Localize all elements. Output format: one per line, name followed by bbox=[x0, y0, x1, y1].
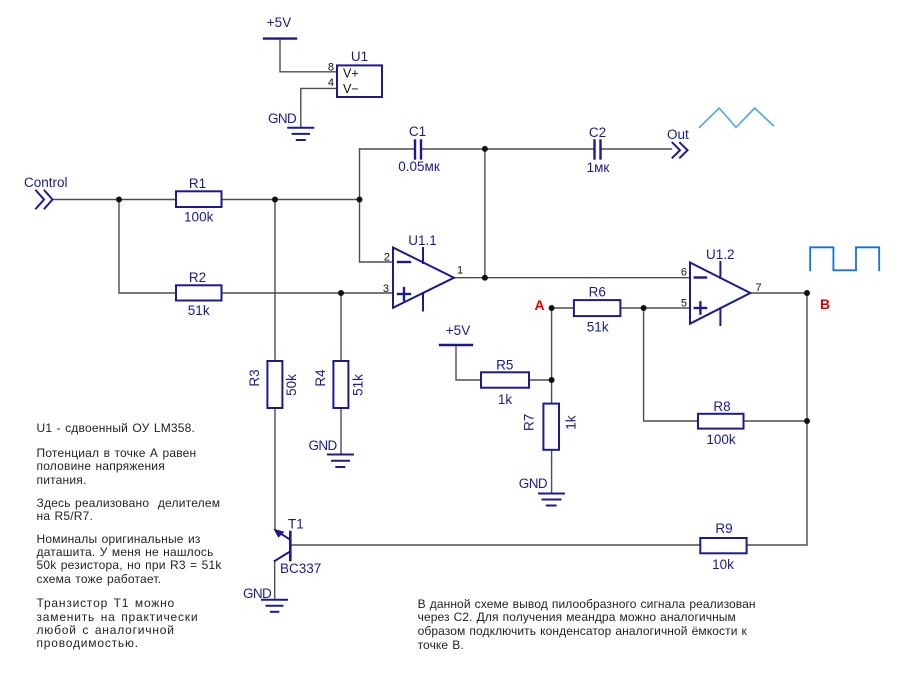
wire T1 emitter to ground bbox=[274, 561, 276, 598]
svg-text:BC337: BC337 bbox=[280, 561, 321, 576]
wire R3 to T1 collector bbox=[274, 408, 276, 530]
resistor R5 bbox=[481, 358, 529, 408]
wire U1.1 output to U1.2 pin6 bbox=[454, 277, 690, 279]
wire R1 to node at x359 bbox=[222, 199, 360, 201]
pin 5 label bbox=[681, 298, 687, 310]
label C1 bbox=[398, 124, 440, 174]
node A label bbox=[534, 297, 544, 313]
wire node275 down to R3 bbox=[274, 200, 276, 362]
label Out bbox=[667, 127, 689, 142]
svg-text:R4: R4 bbox=[313, 369, 328, 387]
svg-text:U1: U1 bbox=[351, 49, 368, 64]
port Control bbox=[36, 191, 53, 209]
wire R6 to pin5 bbox=[620, 307, 690, 309]
pin 6 label bbox=[681, 267, 687, 279]
note text block left bbox=[37, 422, 196, 435]
svg-text:1: 1 bbox=[457, 265, 463, 277]
pin 1 label bbox=[457, 265, 463, 277]
ground symbol top-left bbox=[288, 128, 313, 140]
svg-text:3: 3 bbox=[383, 283, 389, 295]
resistor R9 bbox=[700, 521, 746, 572]
resistor R4 bbox=[313, 361, 366, 408]
svg-text:5: 5 bbox=[681, 298, 687, 310]
capacitor C2 bbox=[595, 141, 601, 159]
wire R8 right to node B line bbox=[744, 420, 808, 422]
resistor R2 bbox=[176, 270, 222, 318]
junction node C1/C2 bbox=[482, 146, 488, 152]
svg-text:10k: 10k bbox=[712, 557, 734, 572]
svg-text:+5V: +5V bbox=[267, 15, 291, 30]
svg-text:Control: Control bbox=[24, 175, 68, 190]
resistor R3 bbox=[247, 361, 299, 408]
pin 2 label bbox=[384, 252, 390, 264]
svg-text:C1: C1 bbox=[409, 124, 426, 139]
note text block right bbox=[418, 598, 756, 653]
wire R5 to node bbox=[529, 379, 552, 381]
label Control bbox=[24, 175, 68, 190]
power +5V symbol mid bbox=[440, 323, 472, 345]
svg-text:2: 2 bbox=[384, 252, 390, 264]
junction node R1/R3 bbox=[272, 197, 278, 203]
ground label under T1 bbox=[243, 586, 272, 601]
junction node output U1.1 bbox=[482, 275, 488, 281]
port Out bbox=[673, 143, 688, 158]
wire vertical x484 down to output bbox=[484, 149, 486, 278]
resistor R1 bbox=[176, 176, 222, 225]
svg-text:50k: 50k bbox=[284, 374, 299, 396]
wire node A to R6 bbox=[552, 307, 574, 309]
svg-text:R2: R2 bbox=[189, 270, 206, 285]
wire U1 pin4 to ground bbox=[301, 88, 337, 127]
ground label under R4 bbox=[309, 438, 338, 453]
op-amp U1.2 bbox=[690, 247, 750, 325]
junction node R8/B bbox=[804, 418, 810, 424]
svg-text:A: A bbox=[534, 297, 544, 313]
svg-text:4: 4 bbox=[328, 77, 334, 89]
svg-text:R3: R3 bbox=[247, 369, 262, 386]
junction node R2/R4 bbox=[338, 290, 344, 296]
label C2 bbox=[587, 125, 610, 175]
svg-text:U1.1: U1.1 bbox=[408, 233, 437, 248]
junction node R6/pin5 bbox=[641, 305, 647, 311]
wire U1.2 output to node B bbox=[750, 292, 807, 294]
junction node B dot bbox=[804, 290, 810, 296]
svg-text:T1: T1 bbox=[288, 517, 304, 532]
pin 3 label bbox=[383, 283, 389, 295]
wire to C1 left bbox=[360, 148, 415, 150]
svg-text:1k: 1k bbox=[564, 415, 579, 430]
wire node B down to R9 bbox=[747, 293, 807, 545]
transistor T1 bbox=[274, 517, 322, 577]
svg-text:GND: GND bbox=[243, 586, 272, 601]
svg-text:51k: 51k bbox=[188, 303, 210, 318]
ground label under R7 bbox=[519, 476, 548, 491]
svg-text:Out: Out bbox=[667, 127, 689, 142]
wire R7 to ground bbox=[551, 450, 553, 493]
wire control input to R1 bbox=[53, 199, 176, 201]
wire +5V leg to R5 bbox=[456, 345, 481, 380]
wire R2 to pin3 bbox=[222, 292, 394, 294]
wire C2 to Out bbox=[601, 148, 672, 150]
junction node R5/R7 bbox=[549, 377, 555, 383]
waveform triangle bbox=[700, 108, 774, 127]
wire node341 down to R4 bbox=[340, 293, 342, 361]
svg-text:V+: V+ bbox=[343, 67, 359, 81]
wire R9 to T1 base bbox=[290, 544, 700, 546]
svg-text:6: 6 bbox=[681, 267, 687, 279]
wire vertical x359 C1 to pin2 bbox=[360, 149, 394, 262]
svg-text:R5: R5 bbox=[496, 358, 513, 373]
junction node R1/C1 branch bbox=[357, 197, 363, 203]
pin 8 label bbox=[328, 62, 334, 74]
svg-text:1k: 1k bbox=[498, 392, 513, 407]
waveform square bbox=[810, 247, 879, 270]
svg-text:GND: GND bbox=[519, 476, 548, 491]
ground symbol under R4 bbox=[328, 455, 353, 468]
capacitor C1 bbox=[415, 141, 421, 159]
svg-text:R6: R6 bbox=[589, 285, 606, 300]
svg-text:V−: V− bbox=[343, 82, 359, 96]
resistor R8 bbox=[698, 399, 744, 447]
svg-text:100k: 100k bbox=[706, 432, 736, 447]
node B label bbox=[820, 296, 830, 312]
ground symbol under T1 bbox=[262, 600, 287, 612]
svg-text:B: B bbox=[820, 296, 830, 312]
junction node A dot bbox=[549, 305, 555, 311]
svg-text:7: 7 bbox=[756, 282, 762, 294]
svg-text:8: 8 bbox=[328, 62, 334, 74]
svg-text:+5V: +5V bbox=[446, 323, 470, 338]
svg-text:GND: GND bbox=[268, 111, 297, 126]
svg-text:51k: 51k bbox=[351, 374, 366, 396]
svg-text:R7: R7 bbox=[522, 414, 537, 431]
svg-text:U1.2: U1.2 bbox=[706, 247, 735, 262]
wire node643 down to R8 bbox=[644, 308, 698, 421]
svg-text:GND: GND bbox=[309, 438, 338, 453]
ground symbol under R7 bbox=[539, 494, 564, 506]
pin 4 label bbox=[328, 77, 334, 89]
svg-text:C2: C2 bbox=[589, 125, 606, 140]
svg-text:1мк: 1мк bbox=[587, 160, 610, 175]
svg-text:R9: R9 bbox=[715, 521, 732, 536]
wire R4 to ground bbox=[340, 408, 342, 454]
svg-text:51k: 51k bbox=[587, 320, 609, 335]
pin 7 label bbox=[756, 282, 762, 294]
svg-text:R1: R1 bbox=[189, 176, 206, 191]
ground label top-left bbox=[268, 111, 297, 126]
op-amp U1.1 bbox=[393, 233, 454, 311]
power +5V symbol top-left bbox=[264, 15, 296, 39]
wire +5V to U1 pin8 bbox=[280, 40, 337, 72]
svg-text:R8: R8 bbox=[713, 399, 730, 414]
wire node119 down and to R2 bbox=[119, 200, 176, 294]
wire C1 to C2 bbox=[422, 148, 594, 150]
junction node at control split bbox=[116, 197, 122, 203]
svg-text:100k: 100k bbox=[184, 210, 214, 225]
resistor R7 bbox=[522, 404, 579, 450]
wire node A down to R7 bbox=[551, 308, 553, 404]
IC U1 power block bbox=[337, 49, 382, 97]
resistor R6 bbox=[574, 285, 621, 335]
svg-text:0.05мк: 0.05мк bbox=[398, 159, 440, 174]
